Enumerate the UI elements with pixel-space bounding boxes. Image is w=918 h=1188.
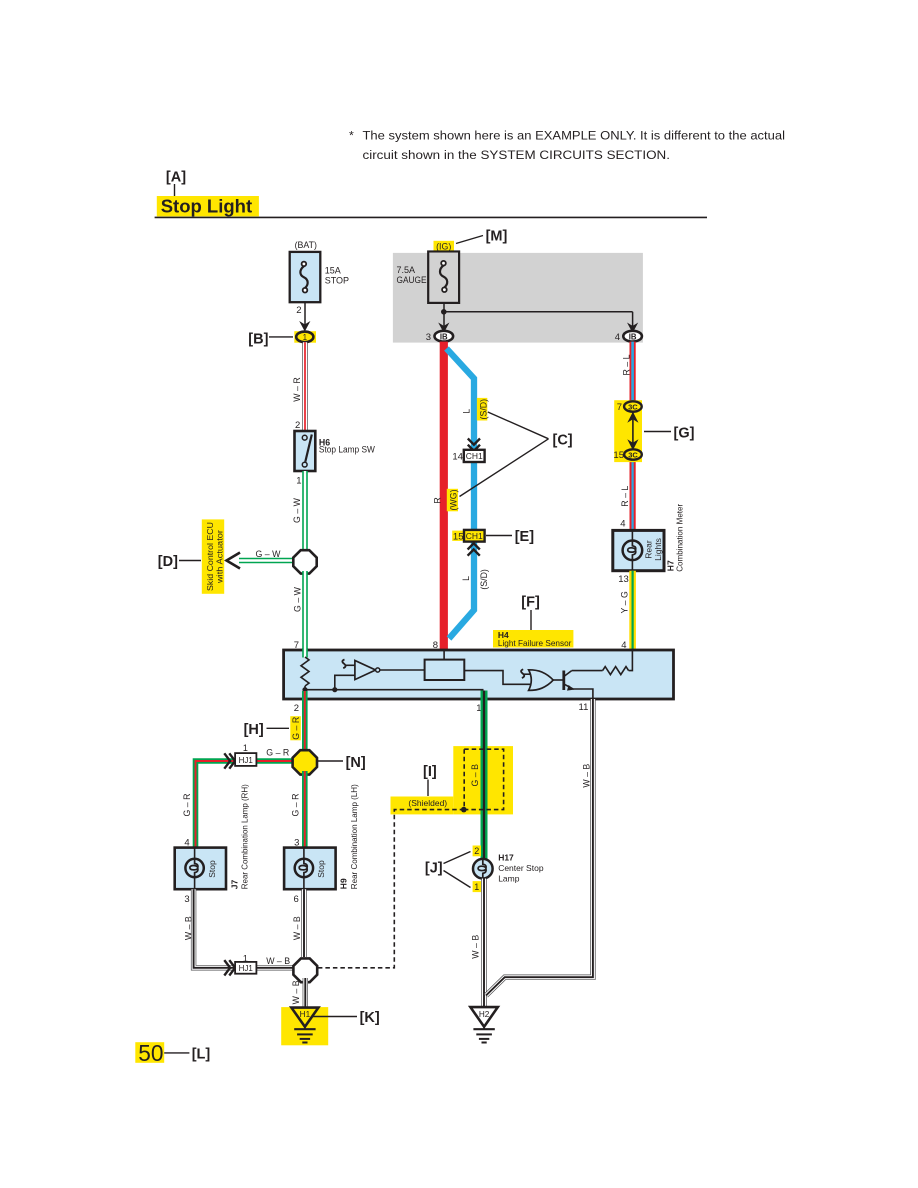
svg-text:circuit shown in the SYSTEM CI: circuit shown in the SYSTEM CIRCUITS SEC… <box>363 148 671 162</box>
svg-text:W – B: W – B <box>184 916 194 940</box>
svg-text:6: 6 <box>294 894 299 905</box>
svg-text:2: 2 <box>296 305 301 316</box>
svg-text:(WG): (WG) <box>449 489 459 510</box>
svg-text:2: 2 <box>294 703 299 714</box>
wire to comparator input <box>335 675 355 689</box>
connector HJ1 upper <box>235 743 256 766</box>
label (WG) <box>447 489 459 512</box>
label (S/D) upper <box>477 398 488 421</box>
chevron HJ1 upper <box>224 753 235 768</box>
wire W-B from H17 to ground H2 <box>470 879 484 1008</box>
title Stop Light <box>157 196 259 217</box>
wire G-W upper <box>292 471 305 551</box>
svg-text:GAUGE: GAUGE <box>397 275 427 285</box>
svg-text:W – R: W – R <box>292 377 302 401</box>
connector 4 IB <box>615 331 642 343</box>
pointer lines to [C] <box>488 412 549 439</box>
connector 14 CH1 <box>452 450 484 463</box>
svg-text:[L]: [L] <box>192 1047 211 1063</box>
svg-text:G – R: G – R <box>182 794 192 817</box>
svg-text:1: 1 <box>243 743 248 753</box>
svg-text:[D]: [D] <box>158 554 178 570</box>
ignition bus gray box <box>393 253 643 343</box>
ground H2 <box>470 1007 497 1042</box>
ground H1 (highlighted) <box>281 1007 328 1045</box>
label [A] <box>166 170 186 197</box>
hysteresis curl <box>342 660 355 669</box>
svg-text:L: L <box>462 409 472 414</box>
wire R-L lower <box>620 458 632 530</box>
svg-text:[F]: [F] <box>521 595 540 611</box>
wire fuse to node B <box>304 302 306 327</box>
svg-text:3: 3 <box>184 894 189 905</box>
svg-text:4: 4 <box>620 519 625 530</box>
connector 3 IB <box>426 331 453 343</box>
svg-text:14: 14 <box>452 452 463 463</box>
label H7 Combination Meter <box>665 504 684 572</box>
svg-text:7.5A: 7.5A <box>397 265 416 275</box>
resistor (horizontal) <box>603 667 629 675</box>
label [B] <box>248 332 293 348</box>
svg-text:Stop: Stop <box>316 860 326 878</box>
svg-text:7: 7 <box>617 402 622 413</box>
page number 50 <box>135 1040 164 1066</box>
wire G-R from pin 2 to node N <box>302 691 308 752</box>
label [L] <box>164 1047 210 1063</box>
svg-text:1: 1 <box>474 882 479 892</box>
svg-text:15: 15 <box>453 531 464 542</box>
svg-text:W – B: W – B <box>266 956 290 966</box>
svg-text:[I]: [I] <box>423 764 437 780</box>
svg-text:Lights: Lights <box>653 538 663 561</box>
title rule <box>155 216 707 218</box>
svg-text:HJ1: HJ1 <box>239 964 254 973</box>
svg-text:50: 50 <box>138 1040 163 1066</box>
label [G] <box>644 426 695 442</box>
svg-text:15A: 15A <box>325 265 341 275</box>
wire W-B from pin 11 to ground H2 <box>486 699 593 996</box>
svg-text:(S/D): (S/D) <box>479 569 489 590</box>
svg-text:W – B: W – B <box>292 916 302 940</box>
connector 15 CH1 <box>452 530 484 542</box>
svg-text:HJ1: HJ1 <box>239 756 254 765</box>
svg-text:2: 2 <box>474 846 479 856</box>
svg-text:Stop: Stop <box>207 860 217 878</box>
svg-text:4: 4 <box>615 332 620 343</box>
svg-text:3C: 3C <box>628 403 638 412</box>
svg-text:CH1: CH1 <box>466 451 483 461</box>
svg-text:H17: H17 <box>498 852 514 862</box>
lamp Rear Lights (H7 combination meter) <box>613 530 664 570</box>
svg-text:R – L: R – L <box>622 354 632 375</box>
svg-text:Lamp: Lamp <box>498 874 520 884</box>
arrow to skid control ECU <box>227 553 241 569</box>
svg-text:CH1: CH1 <box>466 531 483 541</box>
arrow into 4 IB <box>627 323 638 334</box>
label [K] <box>313 1010 380 1026</box>
OR gate <box>529 670 554 691</box>
label G-R highlighted <box>290 716 301 740</box>
label [H] <box>244 722 289 738</box>
wire R (thick red) <box>440 342 448 650</box>
svg-text:The system shown here is an EX: The system shown here is an EXAMPLE ONLY… <box>363 129 786 143</box>
node B (connector 1) <box>294 331 316 343</box>
connector block G (3C) <box>613 400 642 462</box>
junction node <box>332 687 337 692</box>
wire W-B node to ground H1 <box>291 978 305 1008</box>
svg-text:3: 3 <box>426 332 431 343</box>
wire bottom rail <box>305 689 484 691</box>
svg-text:Stop Lamp SW: Stop Lamp SW <box>319 445 375 455</box>
transistor Q1 <box>564 671 574 691</box>
node (octagon junction) <box>293 550 316 573</box>
junction node <box>302 687 307 692</box>
svg-text:*: * <box>349 129 354 143</box>
svg-text:G – R: G – R <box>266 748 289 758</box>
arrow into node B <box>299 321 310 332</box>
svg-text:STOP: STOP <box>325 276 349 286</box>
wire Y-G <box>619 571 632 650</box>
label H9 Rear Combination Lamp (LH) <box>339 784 359 889</box>
label J7 Rear Combination Lamp (RH) <box>230 784 250 889</box>
wire resistor to pin 4 <box>629 650 633 671</box>
shield (dashed) <box>317 749 504 968</box>
svg-text:(Shielded): (Shielded) <box>408 798 447 808</box>
svg-text:G – B: G – B <box>470 764 480 787</box>
svg-text:13: 13 <box>618 574 629 585</box>
svg-text:[C]: [C] <box>553 433 573 449</box>
wire W-R <box>292 342 305 431</box>
svg-text:(BAT): (BAT) <box>295 240 317 250</box>
svg-text:2: 2 <box>295 420 300 431</box>
wire block to OR gate <box>464 671 530 685</box>
svg-text:IB: IB <box>440 332 448 341</box>
wire G-B from pin 1 to H17 <box>470 691 484 860</box>
label [J] <box>425 852 471 888</box>
chevron HJ1 lower <box>224 960 235 975</box>
svg-text:Rear Combination Lamp (LH): Rear Combination Lamp (LH) <box>349 784 359 889</box>
pin 2 of H17 <box>473 846 481 857</box>
svg-text:IB: IB <box>629 332 637 341</box>
svg-text:(IG): (IG) <box>436 242 451 252</box>
wire L (thick blue) <box>447 349 475 639</box>
svg-text:G – W: G – W <box>292 586 302 612</box>
svg-text:Stop Light: Stop Light <box>161 196 252 217</box>
svg-text:G – R: G – R <box>291 717 301 740</box>
arrow into 3 IB <box>438 323 449 334</box>
label Skid Control ECU with Actuator <box>202 519 225 593</box>
svg-text:[K]: [K] <box>360 1010 380 1026</box>
node (octagon junction W-B) <box>293 958 317 982</box>
hysteresis curl OR <box>521 669 530 678</box>
fuse 15A STOP (BAT) <box>290 240 349 302</box>
chevron into 14 CH1 <box>468 439 480 451</box>
svg-text:H9: H9 <box>339 878 349 889</box>
svg-text:G – R: G – R <box>291 794 301 817</box>
label [E] <box>486 529 534 545</box>
label [F] <box>521 595 540 631</box>
node N (octagon junction) <box>293 750 317 774</box>
wire W-B from J7 to HJ1 <box>184 889 295 968</box>
wire G-R branch to HJ1 (left) <box>182 748 294 848</box>
resistor (vertical, pin 7 input) <box>301 657 309 690</box>
svg-text:L: L <box>461 576 471 581</box>
svg-text:3C: 3C <box>628 451 638 460</box>
wire OR to transistor <box>553 679 563 681</box>
svg-text:G – W: G – W <box>256 549 282 559</box>
svg-text:[M]: [M] <box>486 229 508 245</box>
svg-text:G – W: G – W <box>292 497 302 523</box>
wire G-W lower <box>292 571 305 658</box>
wire collector to resistor <box>572 670 603 672</box>
wire fuse to IB ovals <box>441 303 633 328</box>
svg-text:Y – G: Y – G <box>619 591 629 613</box>
svg-text:[N]: [N] <box>346 755 366 771</box>
svg-text:Skid Control ECU: Skid Control ECU <box>205 522 215 591</box>
label [I] <box>423 764 437 796</box>
wire W-B from H9 to node <box>292 889 304 957</box>
svg-text:[E]: [E] <box>515 529 535 545</box>
pin 1 of H17 <box>473 881 481 892</box>
svg-text:Combination Meter: Combination Meter <box>675 504 685 572</box>
svg-text:H1: H1 <box>300 1010 311 1019</box>
svg-text:[A]: [A] <box>166 170 186 186</box>
wire emitter to pin 11 <box>573 689 593 699</box>
svg-text:[J]: [J] <box>425 861 443 877</box>
svg-text:H2: H2 <box>479 1010 490 1019</box>
svg-text:Rear Combination Lamp (RH): Rear Combination Lamp (RH) <box>240 784 250 889</box>
svg-text:Light Failure Sensor: Light Failure Sensor <box>498 638 572 648</box>
label (IG) <box>434 236 484 253</box>
label [D] <box>158 554 201 570</box>
svg-text:[G]: [G] <box>674 426 695 442</box>
wire G-W branch to skid ECU <box>239 549 296 561</box>
svg-text:W – B: W – B <box>291 980 301 1004</box>
label [N] <box>318 755 366 771</box>
lamp H17 Center Stop Lamp <box>473 852 544 883</box>
note text <box>349 129 785 163</box>
wire G-R from node N to H9 <box>291 771 305 848</box>
connector HJ1 lower <box>235 953 256 973</box>
svg-text:W – B: W – B <box>470 935 480 959</box>
chevron below 15 CH1 <box>468 543 480 555</box>
svg-text:1: 1 <box>303 333 308 342</box>
svg-text:15: 15 <box>613 450 624 461</box>
svg-text:Center Stop: Center Stop <box>498 863 544 873</box>
relay/driver block <box>425 650 465 680</box>
comparator U1 <box>355 661 425 680</box>
svg-text:J7: J7 <box>230 879 240 889</box>
light failure sensor H4 box <box>284 650 674 699</box>
label H4 Light Failure Sensor <box>493 630 573 648</box>
fuse 7.5A GAUGE <box>397 252 460 303</box>
svg-text:[B]: [B] <box>248 332 268 348</box>
svg-text:11: 11 <box>579 702 589 713</box>
svg-text:1: 1 <box>296 476 301 487</box>
svg-text:[H]: [H] <box>244 722 264 738</box>
switch H6 Stop Lamp SW <box>295 431 376 471</box>
lamp H9 Stop (Rear Combination Lamp LH) <box>284 848 336 890</box>
svg-text:with Actuator: with Actuator <box>215 530 225 584</box>
svg-text:(S/D): (S/D) <box>478 399 488 420</box>
svg-text:R – L: R – L <box>620 486 630 507</box>
svg-text:R: R <box>432 497 442 503</box>
svg-text:W – B: W – B <box>581 764 591 788</box>
shield highlight <box>391 746 514 814</box>
wire G-W stub inside box <box>302 648 308 658</box>
lamp J7 Stop (Rear Combination Lamp RH) <box>175 848 226 890</box>
wire R-L upper <box>622 342 633 404</box>
